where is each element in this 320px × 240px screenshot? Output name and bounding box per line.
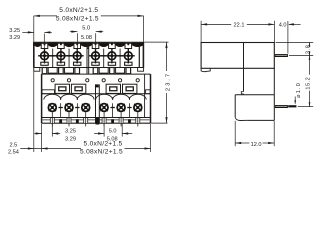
svg-text:2.54: 2.54 [8, 150, 19, 156]
svg-text:5.08: 5.08 [81, 35, 92, 41]
svg-text:3.29: 3.29 [65, 136, 76, 142]
svg-text:3.29: 3.29 [9, 35, 20, 41]
svg-text:15.2: 15.2 [306, 77, 312, 90]
svg-text:5.0xN/2+1.5: 5.0xN/2+1.5 [83, 140, 122, 147]
svg-text:23.7: 23.7 [165, 72, 171, 91]
svg-text:3.8: 3.8 [305, 45, 311, 55]
svg-text:5.0: 5.0 [82, 26, 90, 32]
svg-text:12.0: 12.0 [251, 142, 262, 148]
svg-text:5.0xN/2+1.5: 5.0xN/2+1.5 [59, 7, 98, 14]
svg-text:5.0: 5.0 [109, 129, 117, 135]
svg-text:3.25: 3.25 [65, 129, 76, 135]
svg-text:5.08xN/2+1.5: 5.08xN/2+1.5 [80, 148, 123, 155]
svg-text:22.1: 22.1 [234, 22, 245, 28]
svg-text:5.08xN/2+1.5: 5.08xN/2+1.5 [56, 16, 99, 23]
svg-text:2.5: 2.5 [10, 143, 18, 149]
svg-text:⌀1.0: ⌀1.0 [296, 82, 302, 98]
svg-text:4.0: 4.0 [279, 22, 287, 28]
svg-text:3.25: 3.25 [9, 28, 20, 34]
